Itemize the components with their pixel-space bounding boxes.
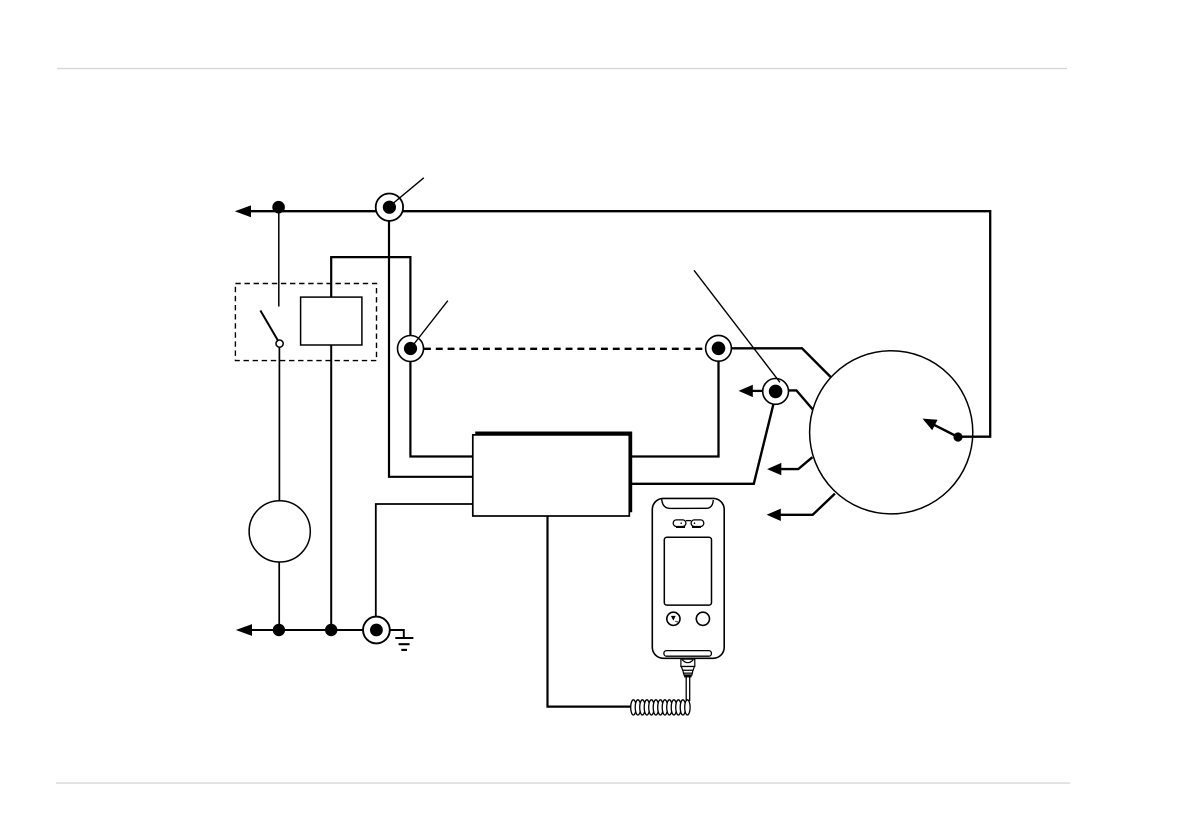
connector B (bullet connector, dashed link end) [398, 301, 448, 362]
handset body [652, 498, 724, 658]
control module box [473, 432, 632, 516]
wire: connector C to ignition housing [731, 348, 830, 377]
arrowhead left end of ground bus [236, 624, 252, 636]
connector D (bullet connector at ignition) [694, 270, 788, 404]
relay contact lever [260, 311, 278, 341]
ignition rotor arrow [934, 425, 958, 437]
wire: control module right pin to connector D [631, 404, 774, 484]
junction node on feed wire [272, 201, 285, 214]
wire: ground connector up then into control module pin 3 [376, 504, 473, 617]
handset right button [696, 612, 709, 625]
handset top buttons [673, 520, 704, 527]
ground symbol [395, 638, 413, 650]
coiled cord [631, 700, 690, 715]
ground connector (bullet) [363, 617, 390, 644]
lamp L1 [249, 501, 310, 562]
wire: control module right pin to connector C [631, 361, 719, 456]
wire: relay coil to connector B [331, 257, 410, 336]
handset bottom slot [664, 651, 712, 657]
arrowhead left end of feed wire [235, 205, 251, 217]
relay coil box [301, 297, 362, 345]
ignition contact node [953, 432, 962, 441]
handset straight cord [685, 677, 687, 702]
wire: connector D to ignition housing [788, 390, 813, 409]
wire: lamp to ground bus [278, 562, 280, 630]
relay contact pivot [276, 340, 283, 347]
handset plug stack [681, 659, 695, 675]
junction node lamp/ground bus [273, 624, 285, 636]
wire: ground connector to ground symbol [390, 630, 404, 638]
handset left button [667, 612, 680, 625]
handset earpiece band [662, 499, 714, 508]
footer rule [56, 782, 1070, 784]
connector A (bullet connector on feed wire) [376, 178, 424, 221]
wire: relay coil to ground bus [330, 345, 332, 630]
wire: relay contact to lamp [278, 347, 280, 501]
wire: connector B down then into control module pin 1 [410, 361, 472, 456]
arrow lead from connector D [751, 390, 763, 392]
wire: main +12V feed (top horizontal, right vertical, into ignition) [247, 211, 990, 436]
handset screen [664, 537, 711, 605]
wire: connector A down then into control module pin 2 [389, 221, 473, 477]
wire: tap from junction down to relay contact [278, 207, 280, 307]
handset plug ferrule [684, 675, 692, 677]
arrowhead connector D lead [739, 385, 753, 397]
relay module dashed enclosure [235, 284, 376, 361]
connector C (bullet connector, dashed link right end) [706, 335, 732, 361]
harness arrow 1 from ignition housing [779, 457, 812, 469]
ignition switch housing (large circle) [810, 351, 973, 514]
wire: feed into ignition contact [958, 435, 991, 437]
ground bus wire (bottom horizontal) [247, 629, 363, 631]
header rule [57, 68, 1067, 70]
harness arrow 2 from ignition housing [779, 494, 835, 515]
wire: control module to handset cord [548, 516, 632, 707]
dashed signal link between connector B and connector C [424, 348, 705, 350]
junction node relay/ground bus [325, 624, 337, 636]
